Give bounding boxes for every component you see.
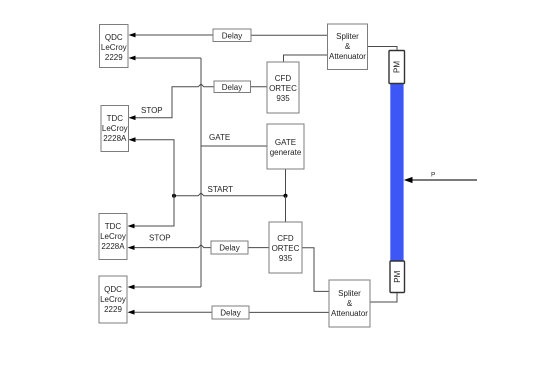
wire Delay2 right to CFD1 left [251, 86, 268, 88]
wire Splitter1 left to CFD1 top [284, 55, 328, 62]
node junction dot left on START line [172, 194, 176, 198]
svg-text:935: 935 [276, 94, 290, 103]
svg-text:LeCroy: LeCroy [100, 295, 126, 304]
svg-text:TDC: TDC [107, 114, 124, 123]
svg-text:GATE: GATE [209, 133, 230, 142]
svg-text:TDC: TDC [105, 222, 122, 231]
svg-text:ORTEC: ORTEC [272, 244, 300, 253]
svg-text:LeCroy: LeCroy [100, 232, 126, 241]
svg-text:Attenuator: Attenuator [329, 52, 366, 61]
svg-text:generate: generate [270, 148, 302, 157]
svg-text:935: 935 [279, 254, 293, 263]
wire Delay1 to QDC1 with arrowhead [135, 34, 213, 36]
svg-text:GATE: GATE [275, 138, 296, 147]
svg-text:LeCroy: LeCroy [102, 124, 128, 133]
svg-text:Spliter: Spliter [336, 32, 359, 41]
wire START node up to TDC1 second input with arrowhead [135, 140, 174, 196]
wire Splitter1 to Delay1 [251, 34, 328, 36]
wire Delay4 right to Splitter2 left [249, 311, 329, 313]
scintillator blue bar [390, 84, 403, 262]
PM photomultiplier PM1 [389, 51, 405, 84]
svg-text:2228A: 2228A [101, 242, 125, 251]
svg-text:Delay: Delay [219, 244, 239, 253]
wire Delay4 to QDC2 second input with arrowhead [134, 311, 212, 313]
PM photomultiplier PM2 [390, 261, 405, 293]
wire PM2 bottom to Splitter2 right [370, 293, 397, 303]
svg-text:Attenuator: Attenuator [331, 309, 368, 318]
svg-text:2228A: 2228A [103, 134, 127, 143]
wire bus bottom corner to QDC2 first input with arrowhead [134, 286, 201, 288]
Splitter and Attenuator U8 [328, 24, 368, 70]
svg-text:CFD: CFD [275, 74, 292, 83]
wire CFD2 right to Splitter2 left [302, 248, 329, 292]
Splitter and Attenuator U9 [329, 280, 370, 327]
svg-text:LeCroy: LeCroy [101, 43, 127, 52]
QDC LeCroy 2229 U4 [99, 276, 127, 323]
CFD ORTEC 935 U7 [269, 222, 302, 273]
GATE generate U6 [267, 124, 304, 169]
svg-text:QDC: QDC [104, 285, 122, 294]
Delay box D1 [213, 29, 251, 42]
wire bus from node at (201,58) to QDC1 second input with arrowhead [135, 57, 201, 59]
node junction dot right on START line [284, 194, 288, 198]
svg-text:2229: 2229 [104, 305, 122, 314]
wire vertical bus x=201 from y=58 to y=287 [200, 58, 202, 287]
svg-text:STOP: STOP [141, 106, 163, 115]
svg-text:Spliter: Spliter [338, 289, 361, 298]
svg-text:P: P [431, 172, 435, 179]
svg-text:START: START [208, 185, 234, 194]
svg-text:&: & [347, 299, 353, 308]
svg-text:Delay: Delay [222, 83, 242, 92]
svg-text:CFD: CFD [277, 234, 294, 243]
wire GATE generate bottom to START node [285, 169, 287, 196]
QDC LeCroy 2229 U1 [100, 25, 129, 68]
wire Delay2 left to TDC1 STOP input with arrowhead and hop over bus [135, 84, 214, 118]
svg-text:Delay: Delay [220, 309, 240, 318]
svg-text:ORTEC: ORTEC [269, 84, 297, 93]
wire Delay3 to TDC2 STOP input with arrowhead and hop over bus [134, 245, 211, 248]
TDC LeCroy 2228A U3 [99, 214, 127, 260]
wire GATE line from bus to GATE generate [201, 145, 267, 147]
wire Delay3 right to CFD2 left [248, 247, 269, 249]
beam arrow into scintillator [411, 179, 477, 181]
svg-text:PM: PM [393, 61, 402, 73]
svg-text:QDC: QDC [105, 33, 123, 42]
wire START line with hop over bus [174, 193, 286, 196]
svg-text:STOP: STOP [149, 234, 171, 243]
svg-text:Delay: Delay [222, 31, 242, 40]
svg-text:PM: PM [393, 270, 402, 282]
Delay box D3 [211, 241, 248, 254]
CFD ORTEC 935 U5 [267, 62, 299, 113]
Delay box D4 [212, 306, 249, 319]
TDC LeCroy 2228A U2 [101, 106, 129, 152]
svg-text:2229: 2229 [105, 53, 123, 62]
svg-text:&: & [345, 42, 351, 51]
wire START node down to TDC2 first input with arrowhead [134, 196, 174, 226]
wire START node down to CFD2 top [285, 196, 287, 222]
Delay box D2 [214, 81, 251, 93]
wire Splitter1 right to PM1 top [368, 47, 398, 51]
